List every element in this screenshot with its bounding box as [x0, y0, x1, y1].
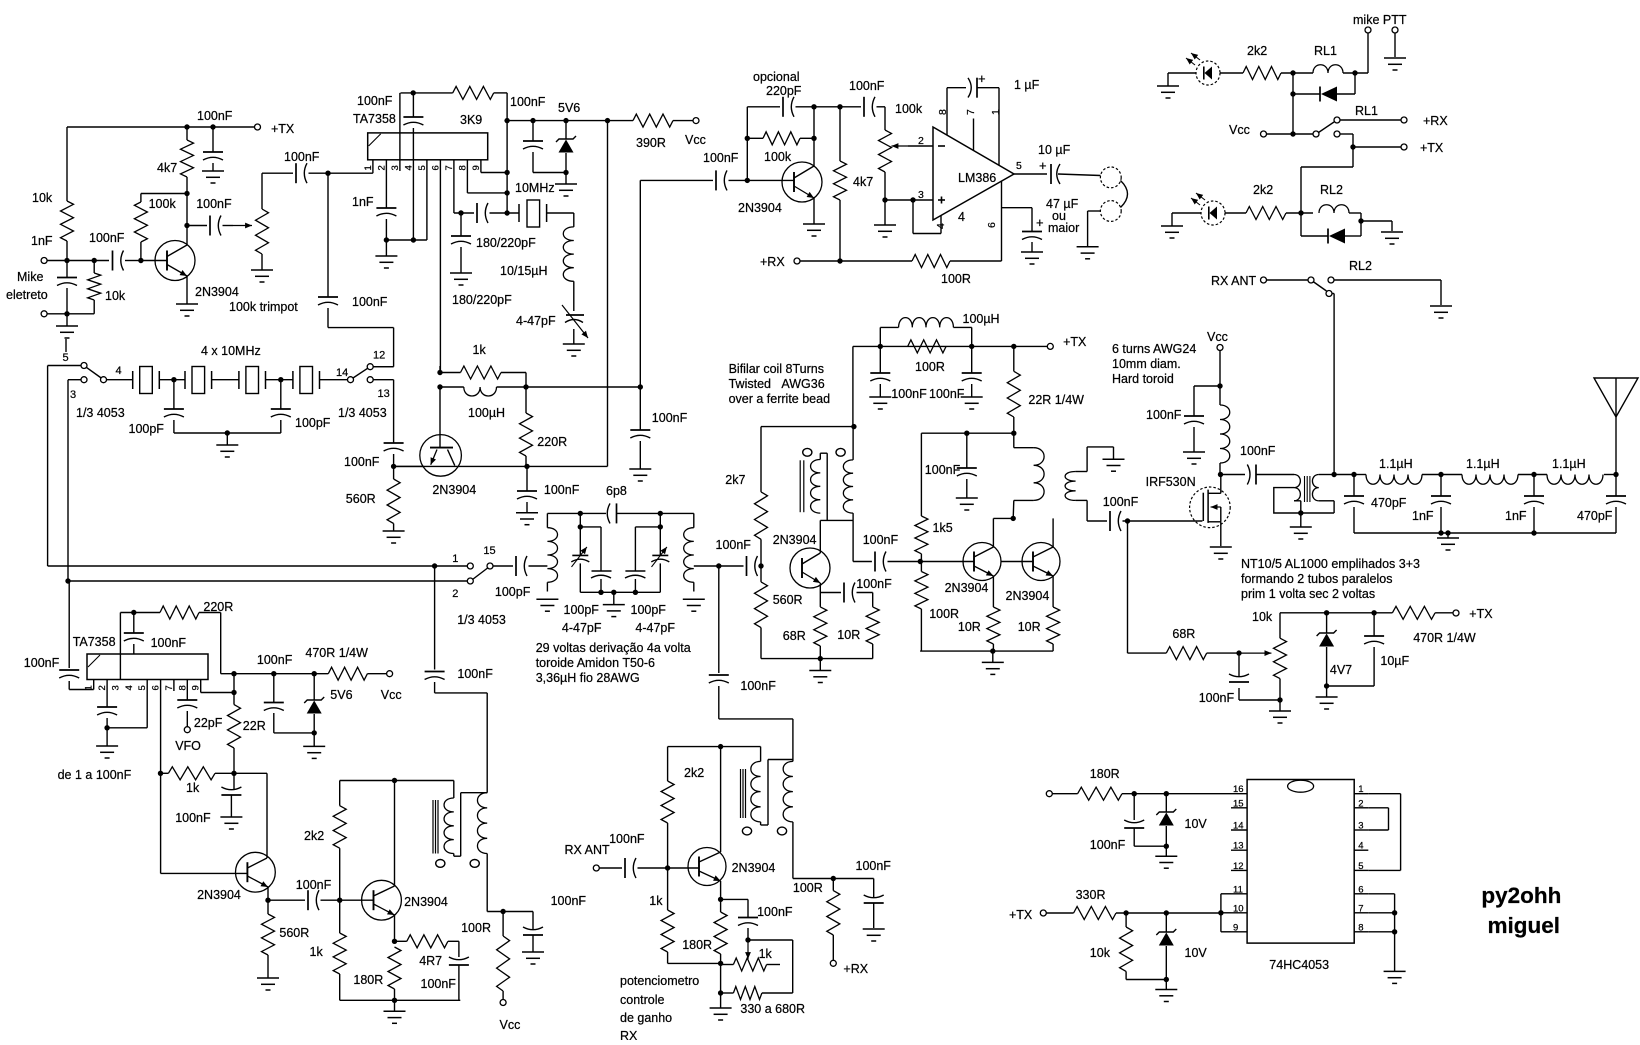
- svg-text:9: 9: [191, 685, 202, 690]
- svg-text:2: 2: [97, 685, 108, 690]
- svg-text:5: 5: [417, 165, 428, 170]
- svg-text:eletreto: eletreto: [6, 288, 48, 302]
- svg-text:100pF: 100pF: [295, 416, 331, 430]
- svg-text:100k trimpot: 100k trimpot: [229, 300, 298, 314]
- svg-text:330R: 330R: [1076, 888, 1106, 902]
- svg-text:22R: 22R: [243, 719, 266, 733]
- svg-text:100nF: 100nF: [716, 538, 752, 552]
- svg-text:15: 15: [483, 545, 495, 557]
- svg-text:10k: 10k: [32, 191, 53, 205]
- svg-text:100nF: 100nF: [925, 463, 961, 477]
- svg-text:100pF: 100pF: [564, 603, 600, 617]
- svg-text:2N3904: 2N3904: [1006, 589, 1050, 603]
- svg-text:RX: RX: [620, 1029, 638, 1040]
- svg-text:py2ohh: py2ohh: [1481, 883, 1561, 908]
- svg-text:100k: 100k: [764, 150, 792, 164]
- svg-text:Vcc: Vcc: [685, 133, 706, 147]
- svg-text:1: 1: [990, 109, 1002, 115]
- svg-text:7: 7: [1358, 903, 1363, 914]
- svg-text:+TX: +TX: [1469, 607, 1493, 621]
- svg-text:68R: 68R: [1172, 627, 1195, 641]
- svg-text:470R 1/4W: 470R 1/4W: [1413, 631, 1476, 645]
- svg-text:100nF: 100nF: [891, 387, 927, 401]
- svg-text:1k5: 1k5: [933, 521, 953, 535]
- svg-text:9: 9: [1233, 922, 1238, 933]
- svg-text:7: 7: [164, 685, 175, 690]
- svg-text:2k2: 2k2: [304, 829, 324, 843]
- svg-text:2N3904: 2N3904: [738, 201, 782, 215]
- svg-text:mike PTT: mike PTT: [1353, 13, 1407, 27]
- svg-text:maior: maior: [1048, 221, 1079, 235]
- svg-text:1k: 1k: [649, 894, 663, 908]
- svg-text:6 turns AWG24: 6 turns AWG24: [1112, 342, 1196, 356]
- svg-text:2k7: 2k7: [725, 473, 745, 487]
- svg-text:470pF: 470pF: [1371, 496, 1407, 510]
- svg-text:1: 1: [84, 685, 95, 690]
- svg-text:100nF: 100nF: [652, 411, 688, 425]
- svg-text:5: 5: [63, 352, 69, 364]
- svg-text:13: 13: [1233, 841, 1244, 852]
- svg-text:3: 3: [918, 189, 924, 201]
- svg-text:6: 6: [1358, 884, 1363, 895]
- svg-text:over a ferrite bead: over a ferrite bead: [729, 392, 830, 406]
- svg-text:180R: 180R: [1090, 767, 1120, 781]
- svg-text:+RX: +RX: [843, 962, 868, 976]
- svg-text:de ganho: de ganho: [620, 1011, 672, 1025]
- svg-text:RL2: RL2: [1320, 183, 1343, 197]
- svg-text:6: 6: [151, 685, 162, 690]
- svg-text:2k2: 2k2: [1247, 44, 1267, 58]
- svg-text:100µH: 100µH: [963, 312, 1000, 326]
- svg-text:2N3904: 2N3904: [197, 888, 241, 902]
- svg-text:RL2: RL2: [1349, 259, 1372, 273]
- svg-text:12: 12: [1233, 861, 1244, 872]
- svg-text:3: 3: [390, 165, 401, 170]
- svg-text:RL1: RL1: [1314, 44, 1337, 58]
- svg-text:1: 1: [452, 553, 458, 565]
- svg-text:100R: 100R: [915, 360, 945, 374]
- svg-text:8: 8: [937, 109, 949, 115]
- svg-text:8: 8: [457, 165, 468, 170]
- svg-text:NT10/5 AL1000 emplihados 3+3: NT10/5 AL1000 emplihados 3+3: [1241, 557, 1420, 571]
- svg-text:220R: 220R: [537, 435, 567, 449]
- svg-text:+: +: [978, 71, 986, 86]
- svg-text:100nF: 100nF: [740, 679, 776, 693]
- svg-text:560R: 560R: [346, 492, 376, 506]
- svg-text:10MHz: 10MHz: [515, 181, 555, 195]
- svg-text:100nF: 100nF: [357, 94, 393, 108]
- svg-text:1.1µH: 1.1µH: [1379, 457, 1413, 471]
- svg-text:10R: 10R: [1018, 620, 1041, 634]
- svg-text:14: 14: [336, 367, 348, 379]
- svg-text:100nF: 100nF: [544, 483, 580, 497]
- svg-text:4: 4: [958, 210, 965, 224]
- svg-text:TA7358: TA7358: [353, 112, 396, 126]
- svg-text:4-47pF: 4-47pF: [562, 621, 602, 635]
- svg-text:6p8: 6p8: [606, 484, 627, 498]
- svg-text:+TX: +TX: [1420, 141, 1444, 155]
- svg-text:5V6: 5V6: [558, 101, 580, 115]
- svg-text:1 µF: 1 µF: [1014, 78, 1040, 92]
- svg-text:1/3 4053: 1/3 4053: [76, 406, 125, 420]
- svg-text:100pF: 100pF: [129, 422, 165, 436]
- svg-text:3,36µH fio 28AWG: 3,36µH fio 28AWG: [536, 671, 640, 685]
- svg-text:10mm diam.: 10mm diam.: [1112, 357, 1181, 371]
- svg-text:LM386: LM386: [958, 171, 996, 185]
- svg-text:22pF: 22pF: [194, 716, 223, 730]
- svg-text:potenciometro: potenciometro: [620, 974, 699, 988]
- svg-text:15: 15: [1233, 798, 1244, 809]
- svg-text:10R: 10R: [958, 620, 981, 634]
- svg-text:11: 11: [1233, 884, 1243, 895]
- svg-text:100nF: 100nF: [863, 533, 899, 547]
- svg-text:100pF: 100pF: [631, 603, 667, 617]
- svg-text:4R7: 4R7: [419, 954, 442, 968]
- svg-text:100nF: 100nF: [1090, 838, 1126, 852]
- svg-text:2N3904: 2N3904: [404, 895, 448, 909]
- svg-text:10k: 10k: [105, 289, 126, 303]
- svg-text:470R 1/4W: 470R 1/4W: [305, 646, 368, 660]
- svg-text:560R: 560R: [773, 593, 803, 607]
- svg-text:1k: 1k: [473, 343, 487, 357]
- svg-text:2: 2: [452, 588, 458, 600]
- svg-text:100nF: 100nF: [1199, 691, 1235, 705]
- svg-text:+TX: +TX: [1009, 908, 1033, 922]
- svg-text:100nF: 100nF: [457, 667, 493, 681]
- svg-text:100nF: 100nF: [421, 977, 457, 991]
- svg-text:100pF: 100pF: [495, 585, 531, 599]
- svg-text:3K9: 3K9: [460, 113, 482, 127]
- svg-text:68R: 68R: [783, 629, 806, 643]
- svg-text:22R 1/4W: 22R 1/4W: [1028, 393, 1084, 407]
- svg-text:Hard toroid: Hard toroid: [1112, 372, 1174, 386]
- svg-text:100nF: 100nF: [352, 295, 388, 309]
- svg-text:formando 2 tubos paralelos: formando 2 tubos paralelos: [1241, 572, 1392, 586]
- svg-text:100nF: 100nF: [89, 231, 125, 245]
- svg-text:+TX: +TX: [1063, 335, 1087, 349]
- svg-text:12: 12: [373, 350, 385, 362]
- svg-text:de 1 a 100nF: de 1 a 100nF: [58, 768, 132, 782]
- svg-text:4: 4: [1358, 841, 1363, 852]
- svg-text:1: 1: [1358, 784, 1363, 795]
- svg-text:Twisted AWG36: Twisted AWG36: [729, 377, 825, 391]
- svg-text:+TX: +TX: [271, 122, 295, 136]
- svg-text:Vcc: Vcc: [1207, 330, 1228, 344]
- svg-text:100nF: 100nF: [510, 95, 546, 109]
- svg-text:10µF: 10µF: [1380, 654, 1409, 668]
- svg-text:2: 2: [376, 165, 387, 170]
- svg-text:100nF: 100nF: [196, 197, 232, 211]
- svg-text:100k: 100k: [895, 102, 923, 116]
- svg-text:10k: 10k: [1252, 610, 1273, 624]
- svg-text:1: 1: [363, 165, 374, 170]
- svg-text:1.1µH: 1.1µH: [1466, 457, 1500, 471]
- svg-text:100R: 100R: [941, 272, 971, 286]
- svg-text:100nF: 100nF: [1146, 408, 1182, 422]
- svg-text:8: 8: [1358, 922, 1363, 933]
- svg-text:4: 4: [124, 685, 135, 690]
- svg-text:100nF: 100nF: [609, 832, 645, 846]
- svg-text:1k: 1k: [310, 945, 324, 959]
- svg-text:180R: 180R: [682, 938, 712, 952]
- svg-text:10R: 10R: [837, 628, 860, 642]
- svg-text:Bifilar coil 8Turns: Bifilar coil 8Turns: [729, 362, 824, 376]
- svg-text:2N3904: 2N3904: [773, 533, 817, 547]
- svg-text:1nF: 1nF: [31, 234, 53, 248]
- svg-text:10V: 10V: [1185, 946, 1208, 960]
- svg-text:4k7: 4k7: [157, 161, 177, 175]
- svg-text:100R: 100R: [793, 881, 823, 895]
- svg-text:4 x 10MHz: 4 x 10MHz: [201, 344, 261, 358]
- svg-text:2: 2: [1358, 798, 1363, 809]
- svg-text:7: 7: [444, 165, 455, 170]
- svg-text:560R: 560R: [279, 926, 309, 940]
- svg-text:100nF: 100nF: [551, 894, 587, 908]
- svg-text:1k: 1k: [759, 947, 773, 961]
- svg-text:16: 16: [1233, 784, 1244, 795]
- svg-text:Vcc: Vcc: [500, 1018, 521, 1032]
- svg-text:2k2: 2k2: [684, 766, 704, 780]
- svg-text:RX ANT: RX ANT: [565, 843, 611, 857]
- svg-text:470pF: 470pF: [1577, 509, 1613, 523]
- svg-text:miguel: miguel: [1488, 913, 1561, 938]
- svg-text:Mike: Mike: [17, 270, 43, 284]
- svg-text:1/3 4053: 1/3 4053: [338, 406, 387, 420]
- svg-text:1nF: 1nF: [352, 195, 374, 209]
- svg-text:100nF: 100nF: [849, 79, 885, 93]
- svg-text:10k: 10k: [1090, 946, 1111, 960]
- svg-text:180R: 180R: [353, 973, 383, 987]
- svg-text:+: +: [1036, 215, 1044, 230]
- svg-text:1nF: 1nF: [1505, 509, 1527, 523]
- svg-text:8: 8: [177, 685, 188, 690]
- svg-text:RL1: RL1: [1355, 104, 1378, 118]
- svg-text:6: 6: [430, 165, 441, 170]
- svg-text:180/220pF: 180/220pF: [452, 293, 512, 307]
- svg-text:100k: 100k: [149, 197, 177, 211]
- svg-text:14: 14: [1233, 821, 1244, 832]
- svg-text:5: 5: [1016, 160, 1022, 172]
- svg-text:3: 3: [70, 389, 76, 401]
- svg-text:10/15µH: 10/15µH: [500, 264, 548, 278]
- svg-text:1nF: 1nF: [1412, 509, 1434, 523]
- svg-text:4-47pF: 4-47pF: [516, 314, 556, 328]
- svg-text:VFO: VFO: [175, 739, 201, 753]
- svg-text:100nF: 100nF: [929, 387, 965, 401]
- svg-text:TA7358: TA7358: [73, 635, 116, 649]
- svg-text:390R: 390R: [636, 136, 666, 150]
- svg-text:+: +: [1039, 158, 1047, 173]
- svg-text:100nF: 100nF: [1103, 495, 1139, 509]
- svg-text:opcional: opcional: [753, 70, 800, 84]
- svg-text:9: 9: [471, 165, 482, 170]
- svg-text:4: 4: [116, 365, 122, 377]
- svg-text:10: 10: [1233, 903, 1244, 914]
- svg-text:100nF: 100nF: [284, 150, 320, 164]
- svg-text:3: 3: [1358, 821, 1363, 832]
- svg-text:+RX: +RX: [1423, 114, 1448, 128]
- svg-text:13: 13: [378, 388, 390, 400]
- svg-text:2N3904: 2N3904: [195, 285, 239, 299]
- svg-text:74HC4053: 74HC4053: [1269, 958, 1329, 972]
- svg-text:Vcc: Vcc: [1229, 123, 1250, 137]
- svg-text:1/3 4053: 1/3 4053: [457, 613, 506, 627]
- svg-text:220R: 220R: [203, 600, 233, 614]
- svg-text:RX ANT: RX ANT: [1211, 274, 1257, 288]
- svg-text:toroide Amidon T50-6: toroide Amidon T50-6: [536, 656, 655, 670]
- svg-text:180/220pF: 180/220pF: [476, 236, 536, 250]
- svg-text:3: 3: [110, 685, 121, 690]
- svg-text:100nF: 100nF: [197, 109, 233, 123]
- svg-text:5V6: 5V6: [330, 688, 352, 702]
- svg-text:100nF: 100nF: [703, 151, 739, 165]
- svg-text:2N3904: 2N3904: [945, 581, 989, 595]
- svg-text:100µH: 100µH: [468, 406, 505, 420]
- svg-text:4: 4: [935, 223, 947, 229]
- svg-text:4-47pF: 4-47pF: [635, 621, 675, 635]
- svg-text:100nF: 100nF: [757, 905, 793, 919]
- svg-text:10 µF: 10 µF: [1038, 143, 1071, 157]
- svg-text:100nF: 100nF: [1240, 444, 1276, 458]
- svg-text:1.1µH: 1.1µH: [1552, 457, 1586, 471]
- svg-text:10V: 10V: [1185, 817, 1208, 831]
- svg-text:IRF530N: IRF530N: [1146, 475, 1196, 489]
- svg-text:7: 7: [965, 109, 977, 115]
- svg-text:29 voltas derivação 4a volta: 29 voltas derivação 4a volta: [536, 641, 691, 655]
- svg-text:+RX: +RX: [760, 255, 785, 269]
- svg-text:2N3904: 2N3904: [432, 483, 476, 497]
- svg-text:100nF: 100nF: [856, 577, 892, 591]
- svg-text:2k2: 2k2: [1253, 183, 1273, 197]
- svg-text:6: 6: [986, 222, 998, 228]
- svg-text:100nF: 100nF: [296, 878, 332, 892]
- svg-text:100nF: 100nF: [151, 636, 187, 650]
- svg-text:4V7: 4V7: [1330, 663, 1352, 677]
- svg-text:100nF: 100nF: [175, 811, 211, 825]
- svg-text:2: 2: [918, 135, 924, 147]
- svg-text:prim 1 volta sec 2 voltas: prim 1 volta sec 2 voltas: [1241, 587, 1375, 601]
- svg-text:controle: controle: [620, 993, 665, 1007]
- svg-text:100R: 100R: [929, 607, 959, 621]
- svg-text:100nF: 100nF: [344, 455, 380, 469]
- svg-text:4: 4: [403, 165, 414, 170]
- svg-text:100nF: 100nF: [856, 859, 892, 873]
- svg-text:5: 5: [137, 685, 148, 690]
- svg-text:2N3904: 2N3904: [732, 861, 776, 875]
- svg-text:330 a 680R: 330 a 680R: [740, 1002, 805, 1016]
- svg-text:4k7: 4k7: [853, 175, 873, 189]
- svg-text:220pF: 220pF: [766, 84, 802, 98]
- svg-text:100nF: 100nF: [24, 656, 60, 670]
- svg-text:100nF: 100nF: [257, 653, 293, 667]
- svg-text:Vcc: Vcc: [381, 688, 402, 702]
- svg-text:100R: 100R: [461, 921, 491, 935]
- svg-text:5: 5: [1358, 861, 1363, 872]
- svg-text:1k: 1k: [186, 781, 200, 795]
